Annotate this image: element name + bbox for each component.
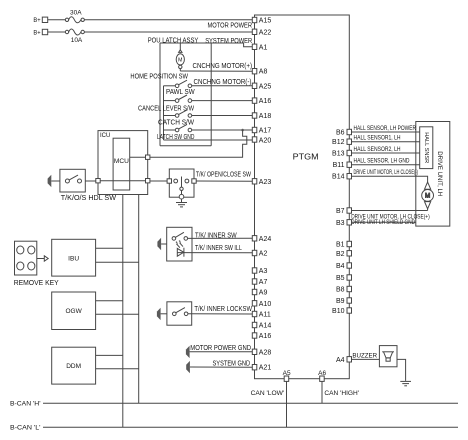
svg-text:M: M — [425, 193, 430, 200]
wire pin B6 hall sensor power — [352, 126, 420, 132]
pin B3 — [336, 220, 352, 227]
svg-text:A5: A5 — [283, 370, 291, 377]
battery terminal B+ (10A circuit) — [33, 29, 47, 36]
ground (inner lock switch) — [157, 308, 161, 320]
pin B14 — [332, 174, 351, 181]
ground (open/close switch) — [176, 203, 187, 207]
wire home position switch to pin A25 — [192, 85, 253, 87]
svg-text:A1: A1 — [259, 44, 268, 51]
svg-text:B5: B5 — [336, 275, 345, 282]
wire B+ to fuse 10A — [48, 31, 66, 33]
svg-text:HOME POSITION SW: HOME POSITION SW — [130, 74, 188, 81]
pin A3 — [252, 268, 267, 275]
svg-text:CAN 'HIGH': CAN 'HIGH' — [324, 390, 359, 397]
pin B2 — [336, 251, 352, 258]
svg-text:B4: B4 — [336, 263, 345, 270]
svg-text:HALL SENSOR, LH GND: HALL SENSOR, LH GND — [354, 159, 411, 165]
svg-text:A16: A16 — [259, 333, 272, 340]
pin A25 — [252, 83, 271, 90]
pin A15 — [252, 17, 271, 24]
svg-text:M: M — [178, 58, 182, 64]
wire box top edge to pin A1 — [160, 43, 252, 47]
pin A16 — [252, 98, 271, 105]
svg-text:HALL SNSR: HALL SNSR — [423, 132, 429, 163]
svg-text:A14: A14 — [259, 323, 272, 330]
catch switch — [164, 124, 192, 131]
pin A18 — [252, 113, 271, 120]
wire motor power gnd to pin A28 — [190, 351, 253, 353]
svg-text:IBU: IBU — [68, 255, 79, 262]
hall sensor box — [420, 127, 433, 169]
svg-text:CNCHNG MOTOR(-): CNCHNG MOTOR(-) — [194, 79, 252, 86]
svg-text:B+: B+ — [33, 17, 40, 24]
svg-text:HALL SENSOR, LH POWER: HALL SENSOR, LH POWER — [354, 126, 417, 132]
wire buzzer to ground — [397, 359, 406, 381]
svg-text:A6: A6 — [318, 370, 326, 377]
svg-text:10A: 10A — [71, 37, 83, 44]
pin A20 — [252, 137, 271, 145]
pin A21 — [252, 365, 271, 372]
svg-text:OGW: OGW — [65, 308, 82, 315]
wire IBU to CAN-L — [96, 247, 123, 249]
pin A23 — [252, 179, 271, 186]
wire latch switch ground to pin A20 — [164, 139, 253, 141]
home position switch — [164, 80, 192, 87]
wire pin A4 to buzzer — [352, 358, 380, 360]
ground (motor power gnd) — [186, 346, 190, 358]
OGW box — [52, 292, 96, 330]
svg-text:POU LATCH ASSY: POU LATCH ASSY — [148, 38, 199, 45]
svg-text:HALL SENSOR2, LH: HALL SENSOR2, LH — [354, 147, 401, 153]
svg-text:CNCHNG MOTOR(+): CNCHNG MOTOR(+) — [193, 63, 253, 70]
svg-text:T/K/ INNER LOCKSW: T/K/ INNER LOCKSW — [194, 306, 252, 313]
wire ICU to open/close switch — [150, 180, 169, 182]
B-CAN L bus — [43, 426, 458, 428]
svg-text:PAWL SW: PAWL SW — [166, 89, 195, 96]
svg-text:REMOVE KEY: REMOVE KEY — [14, 280, 59, 287]
jog wire A20 wire down to ICU wire — [150, 140, 247, 157]
svg-text:CANCEL LEVER S/W: CANCEL LEVER S/W — [138, 106, 194, 113]
pin B5 — [336, 275, 352, 282]
pin A2 — [252, 250, 267, 257]
svg-text:A25: A25 — [259, 83, 272, 90]
remove key transmitter — [14, 241, 59, 287]
pin A7 — [252, 279, 267, 286]
drive unit motor M2 — [422, 182, 434, 211]
wire OGW to CAN-H — [96, 313, 139, 315]
pin B13 — [332, 150, 351, 157]
svg-text:A11: A11 — [259, 312, 271, 319]
svg-text:T/K/O/S HDL SW: T/K/O/S HDL SW — [61, 195, 117, 202]
pin A16b — [252, 333, 271, 340]
wire ground to lock switch box — [161, 313, 167, 315]
wire pin B11 hall sensor gnd — [352, 159, 420, 165]
wire cancel lever switch to pin A18 — [192, 115, 253, 117]
svg-text:SYSTEM GND: SYSTEM GND — [213, 360, 251, 367]
wire OGW to CAN-L — [96, 300, 123, 302]
pin A8 — [252, 69, 267, 76]
svg-text:B7: B7 — [336, 208, 345, 215]
pin A28 — [252, 349, 271, 356]
CAN-H vertical bus from ICU — [138, 195, 140, 404]
svg-text:A28: A28 — [259, 349, 272, 356]
battery terminal B+ (30A circuit) — [33, 17, 47, 24]
svg-text:A18: A18 — [259, 113, 272, 120]
arrow remove key to IBU — [37, 256, 48, 261]
pin A1 — [252, 44, 267, 51]
cinching motor M1 — [176, 43, 184, 71]
svg-text:B+: B+ — [33, 29, 40, 36]
svg-text:B9: B9 — [336, 298, 345, 305]
svg-text:CAN 'LOW': CAN 'LOW' — [251, 390, 285, 397]
svg-text:B2: B2 — [336, 251, 345, 258]
wire inner switch to pin A24 — [188, 237, 253, 239]
DDM box — [52, 347, 96, 384]
pin A10 — [252, 301, 271, 308]
pin A17 — [252, 127, 271, 134]
svg-text:DRIVE UNIT MOTOR, LH CLOSE(-): DRIVE UNIT MOTOR, LH CLOSE(-) — [354, 170, 419, 176]
wire pin A5 to B-CAN L — [286, 381, 288, 427]
fuse 30A — [65, 9, 84, 22]
svg-text:ICU: ICU — [100, 133, 110, 139]
svg-text:SYSTEM POWER: SYSTEM POWER — [205, 38, 252, 45]
wire system gnd to pin A21 — [190, 366, 252, 368]
pin B7 — [336, 208, 352, 215]
svg-text:T/K/ INNER SW ILL: T/K/ INNER SW ILL — [195, 245, 242, 252]
MCU box U2 — [98, 138, 148, 190]
wire motor to pin A8 / CNCHNG MOTOR(+) — [180, 63, 252, 71]
svg-text:A16: A16 — [259, 98, 272, 105]
drive unit LH box — [416, 122, 450, 227]
svg-text:A15: A15 — [259, 18, 272, 25]
wire pin B3 shield gnd — [351, 220, 416, 226]
svg-text:A23: A23 — [259, 179, 272, 186]
pin A9 — [252, 289, 267, 296]
junction on A17 wire — [241, 129, 244, 132]
svg-text:PTGM: PTGM — [293, 151, 319, 161]
wire open/close switch to pin A23 — [196, 180, 252, 182]
svg-text:A24: A24 — [259, 236, 272, 243]
pin B8 — [336, 286, 352, 293]
wire pin B14 drive motor close(-) — [352, 170, 428, 182]
pin B12 — [332, 139, 351, 146]
pin B6 — [336, 129, 352, 136]
CAN-L vertical bus from ICU — [122, 195, 124, 428]
ICU left terminal — [96, 179, 100, 183]
svg-text:B10: B10 — [332, 308, 345, 315]
jog wire A17 junction to A20 wire — [243, 130, 247, 140]
svg-text:A10: A10 — [259, 301, 272, 308]
svg-text:B13: B13 — [332, 151, 345, 158]
T/K open/close switch — [167, 169, 196, 202]
svg-text:A21: A21 — [259, 365, 272, 372]
svg-text:MCU: MCU — [114, 159, 129, 165]
POU latch assy box — [148, 38, 212, 146]
svg-text:B1: B1 — [336, 242, 345, 249]
wire ground to inner switch box — [161, 243, 167, 245]
ICU right terminal (open/close line) — [146, 179, 150, 183]
svg-text:B3: B3 — [336, 220, 345, 227]
svg-text:30A: 30A — [70, 9, 82, 16]
pin A5 — [283, 370, 291, 381]
pin A22 — [252, 29, 271, 36]
ground (tailgate key switch) — [48, 175, 52, 187]
wire pawl switch to pin A16 — [192, 100, 253, 102]
svg-text:A8: A8 — [259, 69, 268, 76]
pin B9 — [336, 298, 352, 305]
svg-text:A20: A20 — [259, 138, 272, 145]
svg-text:B8: B8 — [336, 287, 345, 294]
svg-text:B6: B6 — [336, 130, 345, 137]
T/K/O/S key switch — [60, 169, 85, 192]
svg-text:B14: B14 — [332, 174, 345, 181]
T/K inner switch box — [167, 227, 192, 261]
ground (inner switch) — [157, 238, 161, 250]
ground (buzzer) — [400, 381, 411, 385]
wire pin B13 hall sensor2 — [352, 147, 420, 153]
wire T/K/O/S switch to ICU — [85, 180, 96, 182]
svg-text:A17: A17 — [259, 128, 272, 135]
wire DDM to CAN-H — [96, 368, 139, 370]
cancel lever switch — [164, 110, 192, 117]
pin A11 — [252, 311, 271, 318]
svg-text:DRIVE UNIT, LH: DRIVE UNIT, LH — [436, 151, 442, 196]
IBU box — [52, 239, 96, 276]
svg-text:BUZZER: BUZZER — [352, 353, 377, 359]
wire pin B7 drive motor close(+) — [351, 211, 430, 221]
fuse 10A — [65, 29, 84, 44]
wire ground to T/K/O/S switch — [51, 180, 60, 182]
svg-text:DRIVE UNIT LH SHIELD GND: DRIVE UNIT LH SHIELD GND — [351, 220, 415, 226]
wire catch switch to pin A17 — [192, 129, 253, 131]
wire IBU to CAN-H — [96, 261, 139, 263]
LED (inner switch illumination) — [176, 240, 184, 257]
ground rail of latch switches — [163, 86, 165, 140]
wire pin A6 to B-CAN H — [321, 381, 323, 403]
wire fuse 30A to pin A15 / MOTOR POWER — [84, 20, 252, 30]
svg-text:CATCH S/W: CATCH S/W — [158, 120, 194, 127]
svg-text:B11: B11 — [333, 162, 345, 169]
pin A24 — [252, 236, 271, 243]
pin B4 — [336, 263, 352, 270]
svg-text:A2: A2 — [259, 251, 268, 258]
pin B1 — [336, 241, 352, 248]
B-CAN H bus — [43, 402, 458, 404]
ground (system gnd) — [186, 361, 190, 373]
svg-text:MOTOR POWER: MOTOR POWER — [208, 23, 253, 30]
svg-text:B-CAN 'H': B-CAN 'H' — [10, 400, 41, 407]
pin A14 — [252, 322, 271, 329]
pin A4 — [336, 357, 352, 364]
pawl switch — [164, 95, 192, 102]
pin B11 — [333, 162, 352, 169]
svg-text:DDM: DDM — [66, 363, 81, 370]
wire LED to pin A2 — [177, 252, 252, 254]
buzzer BZ1 — [379, 346, 397, 367]
T/K inner lock switch — [167, 302, 192, 325]
svg-text:T/K/ OPEN/CLOSE SW: T/K/ OPEN/CLOSE SW — [196, 172, 251, 179]
svg-text:HALL SENSOR1, LH: HALL SENSOR1, LH — [354, 136, 401, 142]
wire lock switch to pin A11 — [188, 313, 252, 315]
svg-text:A3: A3 — [259, 268, 268, 275]
ICU box — [98, 131, 148, 195]
svg-text:A9: A9 — [259, 290, 268, 297]
wire B+ to fuse 30A — [48, 19, 66, 21]
pin A6 — [318, 370, 326, 381]
svg-text:B12: B12 — [332, 139, 345, 146]
ICU right terminal (latch gnd line) — [146, 155, 150, 159]
PTGM module box — [255, 15, 350, 379]
pin B10 — [332, 308, 351, 315]
svg-text:MOTOR POWER GND: MOTOR POWER GND — [190, 345, 251, 352]
svg-text:A7: A7 — [259, 279, 268, 286]
wire DDM to CAN-L — [96, 354, 123, 356]
wire pin B12 hall sensor1 — [352, 136, 420, 142]
svg-text:B-CAN 'L': B-CAN 'L' — [10, 425, 41, 432]
svg-text:A22: A22 — [259, 29, 272, 36]
svg-text:A4: A4 — [336, 357, 345, 364]
wire fuse 10A to pin A22 / SYSTEM POWER — [84, 32, 252, 45]
